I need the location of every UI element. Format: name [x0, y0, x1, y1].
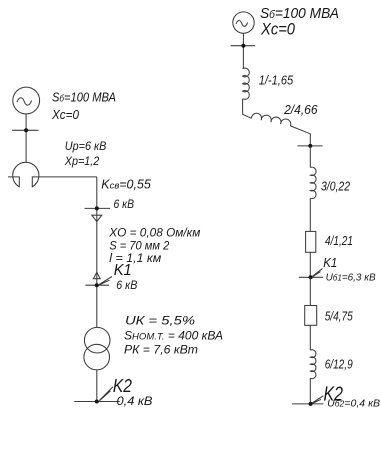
- svg-text:Sб=100 МВА: Sб=100 МВА: [52, 90, 116, 105]
- svg-text:K2: K2: [113, 375, 133, 396]
- svg-text:Xc=0: Xc=0: [51, 107, 80, 122]
- svg-text:XО = 0,08 Ом/км: XО = 0,08 Ом/км: [108, 226, 200, 240]
- svg-text:3/0,22: 3/0,22: [321, 180, 350, 194]
- svg-text:K1: K1: [323, 255, 337, 270]
- svg-text:Xр=1,2: Xр=1,2: [64, 154, 100, 168]
- svg-text:5/4,75: 5/4,75: [325, 310, 353, 324]
- svg-text:Uб1=6,3 кВ: Uб1=6,3 кВ: [326, 272, 376, 284]
- svg-text:Uр=6 кВ: Uр=6 кВ: [65, 139, 107, 153]
- svg-text:0,4 кВ: 0,4 кВ: [117, 396, 153, 408]
- svg-text:SНОМ.Т. = 400 кВА: SНОМ.Т. = 400 кВА: [124, 329, 223, 343]
- svg-text:UК = 5,5%: UК = 5,5%: [125, 313, 195, 327]
- svg-text:Sб=100 МВА: Sб=100 МВА: [260, 5, 339, 22]
- svg-text:Uб2=0,4 кВ: Uб2=0,4 кВ: [327, 398, 380, 410]
- svg-text:6/12,9: 6/12,9: [325, 358, 353, 372]
- svg-text:1/-1,65: 1/-1,65: [259, 74, 294, 88]
- svg-text:Kсв=0,55: Kсв=0,55: [101, 177, 151, 191]
- svg-text:РК = 7,6 кВт: РК = 7,6 кВт: [124, 342, 198, 356]
- svg-text:K1: K1: [114, 262, 132, 279]
- svg-text:2/4,66: 2/4,66: [283, 103, 317, 117]
- svg-text:4/1,21: 4/1,21: [325, 234, 353, 248]
- svg-text:Xc=0: Xc=0: [260, 21, 296, 39]
- svg-text:6 кВ: 6 кВ: [116, 278, 137, 292]
- svg-text:6 кВ: 6 кВ: [114, 197, 135, 211]
